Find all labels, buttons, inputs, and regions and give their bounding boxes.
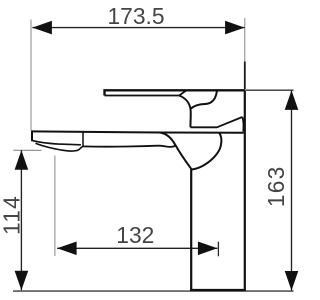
extension line left of 173.5 <box>30 20 32 131</box>
spout joint vertical line <box>82 132 84 147</box>
dimension line 163 <box>291 90 293 290</box>
faucet body column right edge <box>244 90 246 290</box>
svg-text:163: 163 <box>263 165 289 207</box>
arrowhead down 163 <box>285 271 299 291</box>
svg-text:114: 114 <box>0 195 25 235</box>
arrowhead right 173.5 <box>225 21 245 35</box>
base line (counter surface) <box>13 290 294 292</box>
arrowhead down 114 <box>15 271 29 291</box>
leader line at handle top for 163 <box>246 89 294 91</box>
terminator tick right of 132 <box>217 242 219 257</box>
spout front edge <box>31 131 33 141</box>
extension line right of 173.5 (lower thick part above handle) <box>244 62 246 90</box>
body top back arc <box>242 117 243 132</box>
handle lever bottom <box>105 90 187 95</box>
arrowhead up 114 <box>15 150 29 170</box>
dimension line 132 <box>57 247 217 249</box>
handle neck S-curve <box>179 96 191 128</box>
svg-text:173.5: 173.5 <box>107 3 164 29</box>
spout underside <box>83 145 176 147</box>
extension line right of 173.5 (upper thin part) <box>244 18 246 62</box>
arrowhead left 173.5 <box>32 21 52 35</box>
arrowhead right 132 <box>198 242 218 256</box>
arrowhead up 163 <box>285 90 299 110</box>
handle lever top <box>105 90 245 95</box>
cartridge dome top curve <box>191 91 217 109</box>
arrowhead left 132 <box>57 242 77 256</box>
dimension line 114 <box>20 150 22 290</box>
spout root curve down from top line <box>158 132 191 168</box>
svg-text:132: 132 <box>116 222 154 248</box>
aerator top edge <box>32 140 81 144</box>
spout top and body parting line <box>31 131 244 132</box>
body waist curve <box>191 133 221 170</box>
extension line left of 132 under spout <box>54 156 56 257</box>
faucet body column left edge <box>190 169 192 291</box>
cartridge dome bottom edge <box>191 117 243 127</box>
dimension line 173.5 <box>32 27 244 29</box>
faucet body column bottom <box>190 289 246 291</box>
aerator bottom edge <box>36 143 84 151</box>
leader line at aerator outlet for 114 <box>13 149 41 151</box>
